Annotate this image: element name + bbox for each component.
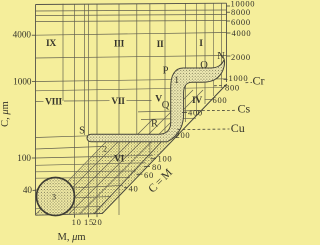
dashed leader line Cu [178, 128, 230, 131]
svg-text:40: 40 [23, 185, 33, 195]
tick 1000 on diagonal [224, 78, 228, 80]
diagonal C=M main line [102, 84, 227, 214]
svg-text:4000: 4000 [232, 28, 252, 38]
vertical grid M=5 [62, 4, 64, 101]
stippled band S-1-N (snake) [87, 60, 225, 142]
grid line C=600 segment b [64, 100, 110, 102]
grid line C=4000 [36, 33, 227, 36]
plot frame bottom edge [36, 214, 103, 216]
tick bottom M=10 [74, 215, 76, 218]
grid line C=1000 [36, 79, 227, 82]
svg-text:2: 2 [103, 145, 107, 154]
svg-text:VII: VII [111, 97, 125, 107]
svg-text:60: 60 [144, 170, 154, 180]
vertical grid M=20 [96, 4, 98, 214]
svg-text:R: R [151, 118, 158, 129]
grid line C=20 [36, 206, 101, 209]
grid line C=8000 [36, 10, 227, 11]
svg-text:20: 20 [93, 217, 103, 227]
svg-text:800: 800 [225, 83, 240, 93]
grid line C=6000 [36, 21, 227, 22]
tick 60 on diagonal [137, 173, 143, 175]
diagonal line d5 [80, 90, 203, 214]
svg-text:M, μm: M, μm [58, 232, 86, 243]
vertical grid M=700 [213, 3, 215, 96]
grid line C=100 [36, 155, 154, 158]
vertical grid M=70 [149, 4, 151, 158]
dashed leader line Cs [197, 109, 236, 111]
tick 40 on diagonal [124, 187, 128, 189]
dashed leader line Cr right part [246, 82, 253, 84]
tick right 2000 [227, 55, 231, 57]
tick right 8000 [227, 11, 231, 13]
grid line C=80 [36, 163, 146, 166]
plot frame left edge [35, 5, 37, 216]
vertical grid M=50 [136, 4, 138, 134]
tick left 100 [32, 157, 36, 159]
svg-text:4000: 4000 [13, 30, 32, 40]
vertical grid M=10 [74, 4, 76, 215]
svg-text:1000: 1000 [229, 73, 249, 83]
grid line C=200 left part [36, 136, 89, 138]
vertical grid M=300 [185, 3, 187, 122]
svg-text:3: 3 [52, 192, 56, 201]
grid line C=50 [36, 176, 131, 179]
svg-text:VIII: VIII [45, 97, 62, 107]
grid line C=300 [141, 118, 196, 119]
svg-text:O: O [200, 60, 208, 71]
svg-text:40: 40 [129, 184, 139, 194]
diagonal line field left boundary [36, 142, 106, 215]
circle region 3 [37, 178, 75, 216]
tick bottom M=20 [96, 214, 98, 217]
vertical grid M=13 [84, 4, 86, 135]
tick 400 on diagonal [182, 111, 187, 113]
vertical grid M=400 [196, 3, 198, 113]
tick right 10000 [227, 5, 231, 7]
svg-text:200: 200 [176, 130, 191, 140]
svg-text:8000: 8000 [231, 7, 251, 17]
tick right 4000 [227, 32, 231, 34]
tick 80 on diagonal [144, 165, 150, 167]
svg-text:400: 400 [188, 107, 203, 117]
svg-text:6000: 6000 [231, 17, 251, 27]
grid line C=600 segment a [36, 100, 44, 102]
tick left 40 [33, 189, 36, 191]
vertical grid M=100 [164, 4, 166, 133]
diagonal line d4 [69, 90, 193, 214]
tick left 4000 [32, 34, 36, 36]
grid line C=30 [36, 197, 112, 200]
grid line C=800 [36, 88, 225, 91]
diagonal line d3 [58, 120, 152, 214]
svg-text:Cs: Cs [238, 102, 251, 116]
plot frame right edge [226, 3, 228, 82]
vertical grid M=800 [220, 3, 222, 88]
diagonal line d2 [46, 142, 118, 214]
grid line C=60 [36, 170, 137, 173]
svg-text:10: 10 [72, 217, 82, 227]
svg-text:P: P [163, 66, 169, 77]
svg-text:III: III [114, 40, 125, 50]
grid line C=200 right part [167, 132, 176, 134]
svg-text:2000: 2000 [231, 52, 251, 62]
svg-text:II: II [157, 40, 164, 50]
svg-text:Cu: Cu [231, 121, 245, 135]
grid line C=2000 [36, 56, 227, 59]
dashed leader line Cr [214, 84, 227, 87]
tick 100 on diagonal [151, 158, 157, 160]
svg-text:Q: Q [162, 100, 170, 111]
svg-text:S: S [79, 125, 85, 136]
plot frame top edge [36, 3, 227, 4]
stippled field region below band [36, 142, 171, 215]
svg-text:600: 600 [213, 95, 228, 105]
svg-text:100: 100 [17, 153, 31, 163]
tick right 6000 [227, 20, 231, 22]
svg-text:N: N [217, 51, 225, 62]
svg-text:1: 1 [174, 75, 179, 85]
grid line C=600 segment c [127, 99, 152, 101]
svg-text:I: I [199, 39, 203, 49]
diagonal C=M companion line [94, 140, 163, 214]
grid line C=400 [138, 111, 199, 112]
grid line C=7000 [36, 15, 227, 16]
tick left 1000 [32, 81, 36, 83]
vertical grid M=15 [88, 4, 90, 215]
svg-text:Cr: Cr [253, 73, 265, 87]
tick bottom M=15 [88, 215, 90, 218]
svg-text:VI: VI [114, 155, 125, 165]
vertical grid M=40 [118, 4, 120, 215]
vertical grid M=500 [204, 3, 206, 104]
grid line C=40 [36, 185, 124, 190]
svg-text:IV: IV [192, 96, 202, 106]
grid line C=150 [36, 146, 105, 149]
svg-text:1000: 1000 [13, 76, 32, 86]
svg-text:IX: IX [46, 39, 56, 49]
grid line C=600 dash right [205, 99, 212, 101]
svg-text:C, μm: C, μm [0, 101, 11, 127]
